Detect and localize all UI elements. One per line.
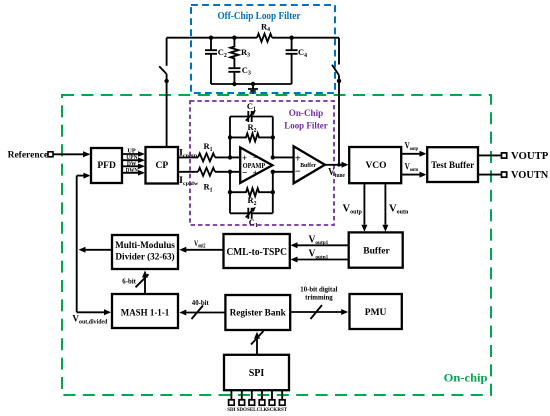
wire: Test Buffer to VOUTP pad: [478, 154, 502, 156]
svg-text:On-chip: On-chip: [444, 370, 488, 384]
buffer amp U2: [294, 146, 325, 183]
wire: CP Icp,dw output: [178, 171, 198, 173]
block CP: [146, 147, 179, 184]
svg-text:SDI: SDI: [227, 408, 235, 413]
resistor R2 (bottom): [230, 188, 273, 196]
block Register Bank: [225, 295, 290, 330]
switch S1 (left, off-chip connect): [159, 38, 166, 74]
svg-text:VCO: VCO: [365, 161, 386, 171]
capacitor C1 (bottom, variable): [230, 208, 273, 219]
wire: Buffer Voutp1 to CML-to-TSPC: [297, 244, 349, 246]
wire: switch S1 to CP top: [166, 74, 168, 147]
svg-text:SCK: SCK: [267, 408, 277, 413]
wire: R1 bottom to opamp: [215, 171, 240, 173]
svg-text:CML-to-TSPC: CML-to-TSPC: [226, 247, 287, 258]
node: opamp in- junction: [228, 170, 232, 174]
block Buffer: [349, 232, 403, 267]
terminal: SDO pad: [239, 400, 245, 405]
on-chip loop filter boundary box: [190, 101, 334, 225]
wire: SPI to Register Bank: [256, 339, 258, 355]
resistor R4: [257, 34, 272, 42]
capacitor C3: [228, 68, 240, 84]
wire: feedback to PFD: [77, 175, 84, 177]
node: S2 pivot dot: [337, 79, 341, 83]
svg-text:UPN: UPN: [126, 155, 138, 161]
svg-text:CP: CP: [155, 161, 168, 171]
wire: bottom feedback right vertical: [272, 172, 274, 214]
svg-text:RST: RST: [277, 408, 287, 413]
node: R2 bottom right junction: [271, 190, 275, 194]
block CML-to-TSPC: [224, 234, 290, 268]
svg-text:On-Chip: On-Chip: [289, 109, 324, 119]
node: S1 pivot dot: [164, 79, 168, 83]
svg-text:Reference: Reference: [8, 151, 48, 161]
svg-text:Divider (32-63): Divider (32-63): [115, 252, 174, 263]
block PFD: [91, 148, 122, 183]
wire UP: PFD to CP: [122, 153, 139, 155]
terminal: RST pad: [279, 400, 285, 405]
terminal: CLK pad: [259, 400, 265, 405]
wire: off-chip top rail left segment: [167, 37, 257, 39]
block SPI: [224, 355, 289, 390]
svg-text:+: +: [253, 169, 258, 179]
wire: Buffer Voutn1 to CML-to-TSPC: [297, 259, 349, 261]
svg-text:Buffer: Buffer: [363, 246, 390, 256]
wire: SPI pin SEL: [251, 390, 253, 400]
wire: VCO Voutn to Test Buffer: [401, 174, 420, 176]
op-amp U1: [240, 148, 272, 183]
block VCO: [349, 147, 401, 183]
resistor R3: [230, 38, 238, 68]
svg-text:VOUTP: VOUTP: [511, 151, 549, 162]
block PMU: [350, 294, 402, 329]
wire: feedback vertical: [76, 176, 78, 313]
node: C4 top junction: [289, 36, 293, 40]
block Test Buffer: [427, 147, 478, 182]
wire: top feedback left vertical: [229, 117, 231, 158]
terminal: VOUTN pad: [502, 172, 507, 177]
svg-text:Multi-Modulus: Multi-Modulus: [115, 241, 175, 251]
wire: SPI pin SDI: [230, 390, 232, 400]
svg-text:OPAMP: OPAMP: [243, 163, 266, 170]
wire: Test Buffer to VOUTN pad: [478, 174, 502, 176]
svg-text:UP: UP: [127, 149, 136, 155]
wire UPN: PFD to CP: [122, 159, 139, 161]
svg-text:Loop Filter: Loop Filter: [284, 121, 328, 131]
wire: SPI pin SDO: [241, 390, 243, 400]
block Multi-Modulus Divider: [112, 235, 178, 269]
capacitor C4: [286, 38, 298, 84]
svg-text:40-bit: 40-bit: [192, 300, 210, 307]
wire: buffer output Vtune to VCO: [325, 164, 343, 166]
svg-text:Register Bank: Register Bank: [230, 308, 287, 318]
node: R2 top right junction: [271, 135, 275, 139]
svg-text:MASH 1-1-1: MASH 1-1-1: [121, 308, 170, 318]
wire: MASH 6-bit to divider: [144, 273, 146, 295]
wire: divider output to feedback node: [85, 249, 112, 251]
switch S2 (right, off-chip connect): [332, 38, 339, 76]
capacitor C1 (top, variable): [230, 111, 273, 122]
svg-text:6-bit: 6-bit: [122, 279, 136, 286]
wire: SPI pin SCK: [271, 390, 273, 400]
capacitor C2: [205, 38, 217, 84]
svg-text:VOUTN: VOUTN: [511, 170, 549, 181]
wire: SPI pin RST: [281, 390, 283, 400]
ground: [248, 84, 258, 93]
wire: switch S2 down to Vtune node: [338, 75, 340, 165]
terminal: SDI pad: [229, 400, 235, 405]
terminal: SCK pad: [269, 400, 275, 405]
node: opamp out+ junction: [271, 155, 275, 159]
wire DW: PFD to CP: [122, 165, 139, 167]
wire: CML-to-TSPC Vout2 to divider: [186, 249, 224, 251]
svg-text:10-bit digital: 10-bit digital: [300, 286, 337, 293]
wire: off-chip top rail right segment: [272, 37, 339, 39]
terminal: Reference input pad: [48, 152, 53, 157]
svg-text:Buffer: Buffer: [300, 162, 316, 169]
wire DWN: PFD to CP: [122, 172, 139, 174]
node: Vtune junction: [337, 163, 341, 167]
resistor R2 (top): [230, 133, 273, 141]
svg-text:−: −: [242, 169, 247, 179]
wire: VCO Voutp to Test Buffer: [401, 153, 420, 155]
block MASH 1-1-1: [112, 294, 178, 328]
wire: opamp out+ to buffer: [273, 156, 294, 158]
svg-text:PMU: PMU: [365, 308, 387, 318]
svg-text:DW: DW: [127, 161, 137, 167]
wire: VCO Voutp down to Buffer: [363, 183, 365, 225]
wire: off-chip bottom rail: [211, 83, 292, 85]
node: C3 bottom junction: [232, 82, 236, 86]
on-chip boundary box: [62, 95, 491, 395]
off-chip loop filter boundary box: [191, 5, 335, 93]
wire: SPI pin CLK: [261, 390, 263, 400]
wire: bottom feedback left vertical: [229, 172, 231, 214]
node: R2 top left junction: [228, 135, 232, 139]
wire: R1 top to opamp: [215, 156, 240, 158]
node: ground junction: [251, 82, 255, 86]
svg-text:Off-Chip Loop Filter: Off-Chip Loop Filter: [218, 11, 302, 22]
wire: Register Bank 10-bit trimming to PMU: [290, 311, 341, 313]
wire: Reference to PFD: [53, 153, 84, 155]
wire: CP Icp,up output: [178, 156, 198, 158]
resistor R1 (top): [198, 153, 215, 161]
wire: VCO Voutn down to Buffer: [384, 183, 386, 225]
node: opamp out- junction: [271, 170, 275, 174]
svg-text:trimming: trimming: [305, 295, 333, 302]
node: R2 bottom left junction: [228, 190, 232, 194]
node: opamp in+ junction: [228, 155, 232, 159]
terminal: SEL pad: [249, 400, 255, 405]
terminal: VOUTP pad: [502, 153, 507, 158]
svg-text:PFD: PFD: [97, 161, 116, 171]
wire: top feedback right vertical: [272, 117, 274, 158]
resistor R1 (bottom): [198, 168, 215, 176]
wire: Register Bank 40-bit to MASH: [186, 312, 226, 314]
node: R3 top junction: [232, 36, 236, 40]
node: C2 top junction: [209, 36, 213, 40]
wire: feedback to MASH: [77, 311, 105, 313]
svg-text:Test Buffer: Test Buffer: [431, 161, 475, 171]
wire: opamp out- to buffer: [273, 171, 294, 173]
svg-text:DWN: DWN: [126, 168, 139, 174]
svg-text:SPI: SPI: [249, 368, 265, 379]
svg-text:SDO: SDO: [237, 408, 247, 413]
